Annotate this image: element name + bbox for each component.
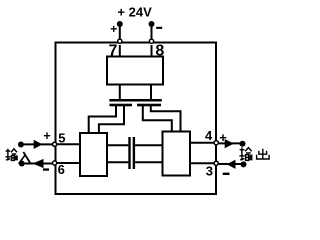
label - (supply) <box>156 27 162 29</box>
arrow input+ (points right) <box>34 140 43 149</box>
wire node4 to output+ terminal <box>219 142 243 144</box>
wire core to demodulator (bottom) <box>135 161 162 163</box>
label 入 (input) hand-drawn <box>19 152 31 164</box>
arrow input- (points left) <box>33 159 44 168</box>
wire pin8 to oscillator <box>151 45 153 57</box>
transformer core bar left <box>128 137 130 169</box>
node 7 <box>118 39 122 43</box>
arrow output+ (points right) <box>225 139 234 148</box>
supply terminal + (dot) <box>117 21 123 27</box>
wire demodulator to node3 <box>190 162 216 164</box>
wire input+ terminal to node5 <box>21 143 53 145</box>
wire node6 to input- terminal <box>22 163 53 165</box>
node 5 <box>53 142 57 146</box>
node 8 <box>149 39 153 43</box>
wire node6 to modulator <box>56 162 81 164</box>
transistor Q2 gate bar <box>137 104 161 107</box>
label - (output) <box>223 173 230 175</box>
modulator block (primary winding) <box>80 133 107 176</box>
node 4 <box>214 141 218 145</box>
output- terminal dot <box>241 161 247 167</box>
label 输 (input) hand-drawn <box>5 149 17 161</box>
svg-text:+: + <box>43 129 50 143</box>
wire supply- to pin8 <box>151 25 153 43</box>
wire modulator to core (bottom) <box>107 161 128 163</box>
oscillator block U1 <box>107 57 163 85</box>
wire Q1 gate inner lead to modulator <box>99 106 124 133</box>
transformer core bar right <box>133 137 135 169</box>
wire node5 to modulator <box>56 143 81 145</box>
wire Q2 gate outer lead to demodulator <box>151 106 181 132</box>
label - (input) <box>43 168 49 170</box>
transistor Q1 gate bar <box>110 104 133 107</box>
svg-text:+ 24V: + 24V <box>117 5 152 20</box>
svg-text:4: 4 <box>205 128 213 143</box>
label 出 (output) hand-drawn <box>257 149 270 159</box>
wire oscillator to Q1 drain <box>119 85 121 100</box>
wire core to demodulator (top) <box>135 144 162 146</box>
wire Q1 gate outer lead to modulator <box>89 106 116 133</box>
transistor Q1/Q2 channel bar <box>109 99 162 102</box>
svg-text:6: 6 <box>58 162 65 177</box>
demodulator block (secondary winding) <box>163 132 191 176</box>
node 3 <box>214 161 218 165</box>
input- terminal dot <box>19 161 25 167</box>
label 输 (output) hand-drawn <box>239 147 251 160</box>
wire pin7 to oscillator <box>119 45 121 57</box>
output+ terminal dot <box>240 141 246 147</box>
input+ terminal dot <box>18 142 24 148</box>
wire Q2 gate inner lead to demodulator <box>143 106 172 132</box>
package outline (module case) <box>56 43 217 195</box>
svg-text:+: + <box>110 22 117 36</box>
arrow output- (points left) <box>227 160 236 169</box>
svg-text:3: 3 <box>206 164 213 179</box>
wire oscillator to Q2 drain <box>150 85 152 100</box>
wire supply+ to pin7 <box>119 25 121 43</box>
wire modulator to core (top) <box>107 144 128 146</box>
svg-text:5: 5 <box>58 130 65 145</box>
wire node3 to output- terminal <box>219 163 244 165</box>
node 6 <box>53 161 57 165</box>
wire demodulator to node4 <box>190 142 216 144</box>
supply terminal - (dot) <box>149 21 155 27</box>
